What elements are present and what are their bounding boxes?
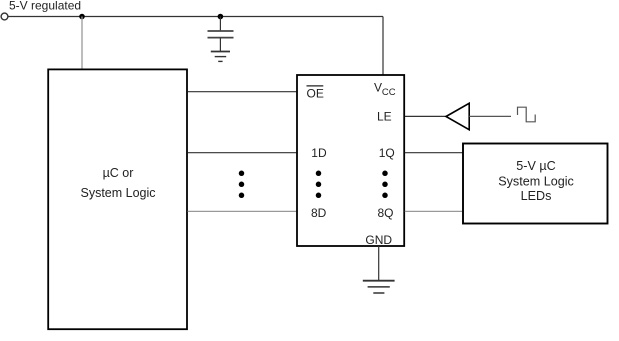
svg-text:1D: 1D — [311, 146, 327, 160]
svg-text:µC or: µC or — [103, 166, 134, 180]
svg-text:8Q: 8Q — [378, 206, 394, 220]
svg-text:System Logic: System Logic — [80, 186, 155, 200]
svg-text:OE: OE — [307, 87, 324, 101]
svg-text:GND: GND — [365, 233, 392, 247]
svg-text:V: V — [374, 81, 382, 95]
svg-text:CC: CC — [382, 87, 396, 98]
svg-text:5-V regulated: 5-V regulated — [9, 0, 81, 12]
svg-text:1Q: 1Q — [379, 146, 395, 160]
svg-text:LEDs: LEDs — [521, 189, 552, 203]
svg-text:LE: LE — [377, 109, 392, 123]
svg-text:8D: 8D — [311, 206, 327, 220]
svg-text:System Logic: System Logic — [498, 175, 574, 189]
svg-text:5-V µC: 5-V µC — [516, 159, 555, 173]
